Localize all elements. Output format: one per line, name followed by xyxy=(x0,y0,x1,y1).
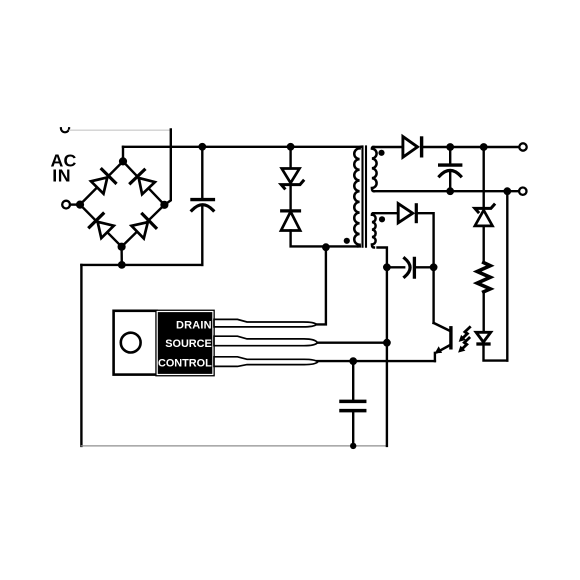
U2 pin DRAIN outline xyxy=(214,319,317,327)
diode bridge D4 (bottom to right) xyxy=(132,214,156,238)
wire secondary top lead to D6 xyxy=(373,146,403,148)
svg-text:SOURCE: SOURCE xyxy=(165,338,212,350)
node AC line-2 terminal (open circle) xyxy=(62,201,70,209)
diode D7 cathode bar xyxy=(415,205,418,222)
node bridge right xyxy=(160,201,168,209)
U2 TO-220 mounting hole xyxy=(121,333,141,353)
capacitor C2 plate - (curved) xyxy=(440,170,461,176)
capacitor C3 right lead xyxy=(414,266,433,268)
capacitor C4 plate 2 xyxy=(341,409,365,413)
wire output + rail xyxy=(422,146,520,148)
U2 pin CONTROL outline xyxy=(214,357,318,367)
wire feedback tap down from + rail xyxy=(483,147,485,206)
wire bridge bottom node lead down xyxy=(120,247,123,265)
capacitor C1 plate + xyxy=(192,198,213,201)
capacitor C2 bottom lead xyxy=(449,172,451,191)
capacitor C1 bottom lead xyxy=(201,206,203,265)
wire source/bias return riser xyxy=(378,248,387,446)
wire resistor R1 to LED xyxy=(483,292,485,333)
capacitor C3 straight plate xyxy=(413,258,416,277)
U2 TO-220 black body xyxy=(155,310,215,377)
node junction source pin at return riser xyxy=(383,339,391,347)
node output + terminal (open circle) xyxy=(519,143,526,150)
LED U1-diode cathode bar xyxy=(478,342,489,345)
wire clamp bottom to primary return xyxy=(291,231,360,247)
node junction - rail at C2 xyxy=(446,187,454,195)
node junction ground rail at C4 xyxy=(350,443,356,449)
transistor U1 emitter arrowhead xyxy=(435,346,443,353)
capacitor C1 plate - (curved) xyxy=(192,205,213,211)
wire bottom ground rail xyxy=(81,445,387,447)
capacitor C3 bias (left lead) xyxy=(387,266,404,268)
transistor U1 opto base bar xyxy=(449,328,452,348)
transformer T1 secondary winding xyxy=(372,147,377,191)
svg-text:CONTROL: CONTROL xyxy=(158,358,212,370)
node T1 secondary phasing dot xyxy=(378,150,384,156)
capacitor C2 output (top lead) xyxy=(449,147,451,163)
diode D7 bias rectifier triangle xyxy=(398,204,413,223)
wire drain pin to primary xyxy=(317,247,326,324)
zener VR1 clamp (lead from rail) xyxy=(289,147,291,169)
wire zener to diode D5 xyxy=(289,185,291,211)
node bridge top xyxy=(119,157,127,165)
node T1 bias phasing dot xyxy=(379,216,385,222)
node junction bias cap right xyxy=(430,263,438,271)
wire AC line-1 riser to bridge right node xyxy=(164,130,170,205)
svg-text:IN: IN xyxy=(52,166,71,186)
wire bridge diamond edges xyxy=(80,161,164,246)
opto light arrow 1 xyxy=(459,327,470,342)
transformer T1 core line 1 xyxy=(361,146,363,246)
diode D5 blocking bar xyxy=(282,209,300,212)
wire feedback return riser to output - rail xyxy=(506,191,508,360)
node junction bias cap left xyxy=(383,263,391,271)
capacitor C3 curved plate xyxy=(405,258,411,277)
wire left outer loop vertical xyxy=(80,265,82,446)
node AC line-1 terminal (open arc, top left) xyxy=(61,128,69,132)
capacitor C1 input bulk (top lead) xyxy=(201,147,203,198)
wire control pin to opto emitter xyxy=(317,360,435,362)
capacitor C4 bottom lead xyxy=(352,412,354,446)
wire secondary bottom lead / output - rail xyxy=(374,190,519,192)
wire AC line-2 to bridge left node xyxy=(70,203,80,205)
LED U1-diode triangle xyxy=(476,332,491,342)
diode D5 triangle xyxy=(281,212,300,231)
diode bridge D1 (left to top) xyxy=(91,169,115,193)
capacitor C4 plate 1 xyxy=(341,400,365,404)
wire LED cathode down and right xyxy=(484,344,508,361)
node bridge bottom xyxy=(118,243,126,251)
diode D6 output rectifier triangle xyxy=(403,137,418,158)
wire bridge top node riser to DC+ rail xyxy=(122,147,124,162)
node output - terminal (open circle) xyxy=(519,188,526,195)
wire D7 to opto collector branch xyxy=(416,213,433,323)
zener VR2 triangle xyxy=(475,210,493,226)
zener VR1 bar with wings xyxy=(281,181,303,188)
node junction top rail at clamp xyxy=(287,143,295,151)
diode D6 cathode bar xyxy=(420,138,423,156)
U2 TO-220 tab outline xyxy=(114,311,157,375)
node junction DC- at bridge lead xyxy=(118,261,126,269)
wire zener VR2 to resistor R1 xyxy=(483,226,485,263)
capacitor C4 control bypass (top lead) xyxy=(352,361,354,400)
wire source pin to return riser xyxy=(317,342,387,344)
zener VR1 triangle xyxy=(282,169,300,183)
opto light arrow 2 xyxy=(458,338,469,353)
transformer T1 bias winding xyxy=(372,213,376,247)
U2 pin SOURCE outline xyxy=(214,336,318,346)
svg-text:DRAIN: DRAIN xyxy=(176,320,212,332)
zener VR2 feedback bar with wings xyxy=(475,205,494,212)
node junction + rail at feedback tap xyxy=(480,143,488,151)
node junction + rail at C2 xyxy=(446,143,454,151)
transformer T1 primary winding xyxy=(354,147,361,247)
transformer T1 core line 2 xyxy=(365,146,367,246)
resistor R1 zigzag xyxy=(477,263,490,292)
node junction control line at C4 xyxy=(349,357,357,365)
node junction top rail at C1 xyxy=(198,143,206,151)
node bridge left xyxy=(76,201,84,209)
wire DC+ rail to transformer primary xyxy=(123,146,361,148)
transistor U1 opto collector diagonal xyxy=(434,323,451,331)
node T1 primary phasing dot xyxy=(344,238,350,244)
diode bridge D2 (right to top) xyxy=(130,170,155,194)
U2 TO-220 body inner white border xyxy=(157,312,213,375)
wire DC- return (bottom node to input cap bottom) xyxy=(81,264,202,266)
transistor U1 opto emitter diagonal xyxy=(437,345,451,353)
capacitor C2 plate + xyxy=(440,163,461,166)
wire bias winding top lead to D7 xyxy=(373,212,398,214)
wire opto emitter riser xyxy=(434,353,436,361)
wire faint AC line-1 to bridge xyxy=(70,129,171,131)
node junction - rail at feedback return xyxy=(503,187,511,195)
diode bridge D3 (bottom to left) xyxy=(89,214,113,238)
node junction primary return at drain riser xyxy=(322,243,330,251)
